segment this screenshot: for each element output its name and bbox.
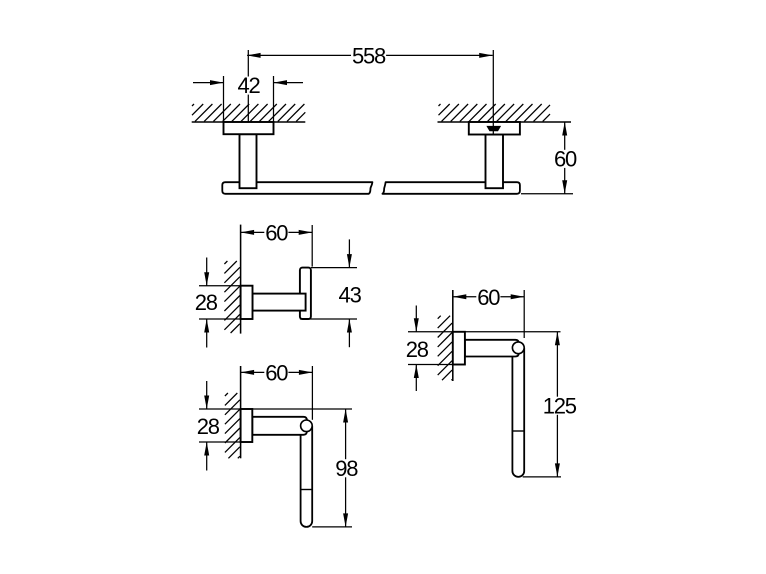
svg-text:28: 28 [197,414,220,439]
svg-text:60: 60 [265,361,288,386]
svg-text:28: 28 [195,290,218,315]
svg-text:60: 60 [554,146,577,171]
svg-text:125: 125 [543,393,577,418]
svg-text:98: 98 [335,456,358,481]
svg-text:60: 60 [265,221,288,246]
svg-text:558: 558 [352,44,386,69]
svg-text:43: 43 [339,283,362,308]
svg-text:42: 42 [237,73,260,98]
svg-text:60: 60 [477,285,500,310]
svg-text:28: 28 [406,337,429,362]
